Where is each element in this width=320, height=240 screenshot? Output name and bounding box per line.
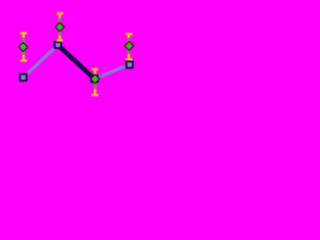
error bar C top bar bbox=[91, 68, 98, 70]
error bar B green stub above diamond bbox=[59, 18, 61, 23]
error bar B stem bbox=[59, 14, 61, 41]
error bar B bottom bar bbox=[56, 39, 63, 41]
error bar A green stub below diamond bbox=[23, 51, 25, 55]
diamond marker A bbox=[19, 43, 28, 52]
error bar B green stub below diamond bbox=[59, 32, 61, 36]
error bar D green stub below diamond bbox=[128, 51, 130, 55]
diamond marker D bbox=[125, 41, 134, 50]
background bbox=[0, 0, 154, 110]
error bar D bottom bar bbox=[125, 58, 132, 60]
error bar A stem bbox=[22, 33, 24, 60]
node A square vertex bbox=[20, 74, 27, 81]
wire segment S1 (thin periwinkle line from node A to node B) bbox=[23, 45, 58, 77]
error bar D green stub above diamond bbox=[128, 38, 130, 41]
error bar D stem bbox=[128, 34, 130, 59]
error bar D top bar bbox=[125, 33, 132, 35]
node D square vertex bbox=[126, 62, 132, 68]
diamond marker B bbox=[55, 23, 64, 32]
wire segment S3 (thin periwinkle line from node C to node D) bbox=[94, 65, 129, 79]
error bar A green stub above diamond bbox=[22, 38, 24, 43]
diamond marker C bbox=[91, 74, 100, 83]
error bar B top bar bbox=[56, 12, 63, 14]
wire segment S2 (thick navy line from node B to node C) bbox=[58, 45, 94, 79]
error bar C stem bbox=[94, 69, 96, 95]
error bar A top bar bbox=[20, 32, 27, 34]
node C square vertex bbox=[91, 76, 98, 83]
error bar C bottom bar bbox=[91, 94, 98, 96]
node B square vertex bbox=[55, 42, 61, 48]
error bar C green stub below diamond bbox=[94, 84, 96, 90]
error bar A bottom bar bbox=[20, 60, 27, 62]
